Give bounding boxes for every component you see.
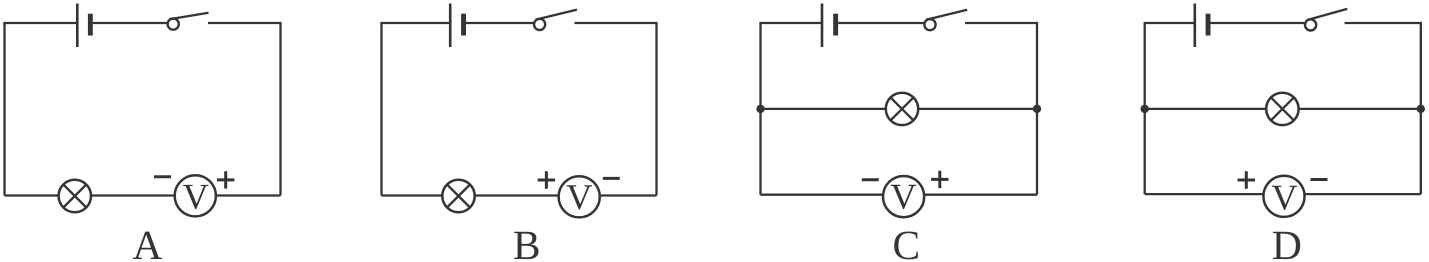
voltmeter (circuit D) (1263, 176, 1304, 217)
wire: circuit C top, switch to right corner (965, 22, 1037, 24)
label: answer choice D (1273, 232, 1300, 259)
wire: circuit C left vertical (759, 23, 761, 195)
wire: circuit D bottom, left corner to voltmeter (1145, 193, 1263, 195)
wire: circuit C bottom, voltmeter to right corner (925, 194, 1037, 196)
lamp (circuit B) (442, 180, 474, 212)
wire: circuit D top, battery to switch (1211, 22, 1305, 24)
label: answer choice B (514, 232, 538, 259)
switch (circuit A) (168, 13, 209, 30)
label: voltmeter C minus terminal (862, 178, 879, 181)
wire: circuit A bottom, left corner to lamp (5, 194, 59, 196)
junction dot (circuit C left) (756, 105, 764, 113)
wire: circuit B left vertical (380, 23, 382, 196)
junction dot (circuit D right) (1417, 105, 1425, 113)
wire: circuit C middle branch, left segment (761, 108, 886, 110)
lamp (circuit C) (886, 93, 918, 125)
wire: circuit B bottom, voltmeter to right corner (601, 194, 657, 196)
wire: circuit D top, left of battery (1144, 22, 1195, 24)
label: voltmeter D plus terminal (1238, 171, 1255, 188)
battery (circuit C) (822, 4, 838, 48)
label: answer choice A (133, 232, 162, 259)
label: voltmeter B plus terminal (538, 171, 555, 188)
wire: circuit C top, left of battery (759, 22, 822, 24)
wire: circuit B bottom, lamp to voltmeter (475, 194, 558, 196)
wire: circuit B top, switch to right corner (575, 22, 657, 24)
wire: circuit D bottom, voltmeter to right corner (1305, 193, 1421, 195)
switch (circuit B) (534, 10, 577, 30)
label: voltmeter D minus terminal (1311, 178, 1328, 181)
lamp (circuit D) (1266, 93, 1298, 125)
label: voltmeter C plus terminal (931, 171, 948, 188)
switch (circuit C) (924, 10, 967, 30)
battery (circuit B) (450, 4, 466, 48)
junction dot (circuit C right) (1033, 105, 1041, 113)
switch (circuit D) (1305, 9, 1347, 31)
wire: circuit A top, left of battery (3, 22, 77, 24)
label: answer choice C (894, 232, 918, 260)
wire: circuit A left vertical (3, 23, 5, 196)
voltmeter (circuit A) (175, 175, 216, 216)
wire: circuit D middle branch, right segment (1299, 108, 1421, 110)
wire: circuit C top, battery to switch (838, 22, 924, 24)
label: voltmeter A plus terminal (217, 171, 234, 188)
wire: circuit B top, battery to switch (466, 22, 534, 24)
voltmeter (circuit B) (559, 176, 600, 217)
wire: circuit A top, battery to switch (93, 22, 168, 24)
wire: circuit D top, switch to right corner (1345, 22, 1421, 24)
wire: circuit B right vertical (655, 22, 657, 196)
wire: circuit A right vertical (279, 22, 281, 196)
wire: circuit A bottom, voltmeter to right corner (216, 194, 281, 196)
label: voltmeter B minus terminal (603, 177, 620, 180)
label: voltmeter A minus terminal (154, 175, 171, 178)
wire: circuit A bottom, lamp to voltmeter (91, 194, 175, 196)
battery (circuit D) (1195, 4, 1211, 48)
lamp (circuit A) (59, 180, 91, 212)
voltmeter (circuit C) (883, 176, 924, 217)
wire: circuit C right vertical (1036, 22, 1038, 195)
wire: circuit B bottom, left corner to lamp (382, 194, 443, 196)
wire: circuit D left vertical (1144, 23, 1146, 194)
wire: circuit C bottom, left corner to voltmeter (761, 194, 883, 196)
wire: circuit D right vertical (1420, 22, 1422, 194)
battery (circuit A) (77, 4, 93, 48)
wire: circuit D middle branch, left segment (1145, 108, 1267, 110)
junction dot (circuit D left) (1141, 105, 1149, 113)
wire: circuit A top, switch to right corner (208, 22, 281, 24)
wire: circuit C middle branch, right segment (918, 108, 1037, 110)
wire: circuit B top, left of battery (380, 22, 450, 24)
